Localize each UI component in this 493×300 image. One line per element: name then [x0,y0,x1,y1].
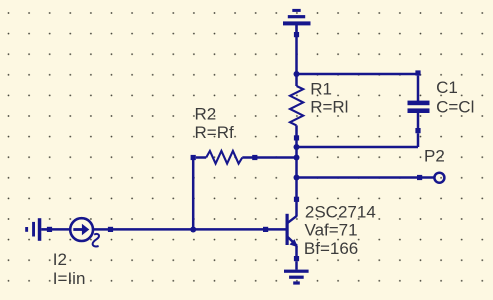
wire ground to node A [295,37,298,74]
capacitor C1 [408,70,430,147]
port P2 [417,173,444,183]
node B [294,144,300,150]
svg-text:R=Rl: R=Rl [310,98,348,117]
ground (top, flipped) [283,9,311,37]
wire node E to port P2 [297,176,418,179]
svg-text:P2: P2 [424,146,445,165]
svg-text:C=Cl: C=Cl [436,98,474,117]
wire node B to node C [295,147,298,158]
svg-text:C1: C1 [436,78,458,97]
svg-text:2SC2714: 2SC2714 [305,203,376,222]
wire node C to node E [295,158,298,178]
svg-text:R=Rf: R=Rf [195,123,234,142]
svg-text:R2: R2 [195,104,217,123]
wire node A to C1 top [297,73,419,76]
svg-text:Vaf=71: Vaf=71 [305,221,358,240]
wire C1 bottom to node B [297,146,419,149]
node A (R1 top junction) [294,71,300,77]
node C (R2 junction) [294,155,300,161]
wire left ground to I2 [52,228,70,231]
node E (port tap junction) [294,175,300,181]
svg-text:Bf=166: Bf=166 [304,239,358,258]
resistor R2 [191,151,297,164]
svg-text:I2: I2 [53,250,67,269]
wire R2 left pin down to base net [192,160,195,230]
ground (left, rotated) [25,218,52,241]
wire I2 to transistor base [113,228,263,231]
current source I2 [70,218,113,246]
wire node E down to collector [295,178,298,198]
transistor Q1 2SC2714 [263,197,299,270]
ground (bottom) [284,270,309,285]
svg-text:I=Iin: I=Iin [53,269,86,288]
resistor R1 [290,74,303,147]
node D (base net junction) [190,227,196,233]
svg-text:R1: R1 [310,79,332,98]
